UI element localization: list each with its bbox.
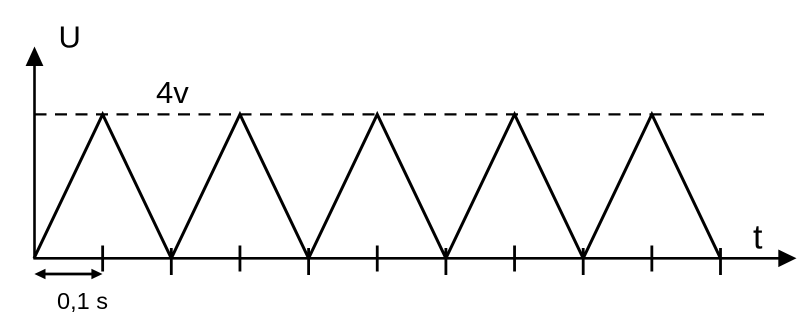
svg-text:4v: 4v <box>156 75 189 110</box>
tick mark 5 <box>376 246 379 272</box>
tick mark 3 <box>239 246 242 272</box>
t axis (horizontal time axis) <box>34 257 780 260</box>
svg-text:t: t <box>753 219 763 257</box>
tick mark 2 <box>170 248 173 275</box>
U axis arrowhead <box>26 47 44 67</box>
U axis (vertical voltage axis) <box>33 60 36 260</box>
tick mark 1 (0.1 s) <box>101 246 104 272</box>
tick mark 7 <box>513 246 516 272</box>
svg-text:0,1 s: 0,1 s <box>57 288 108 314</box>
tick mark 9 <box>650 246 653 272</box>
svg-text:U: U <box>59 20 81 55</box>
tick mark 8 <box>582 248 585 275</box>
4v dashed level line <box>35 113 765 115</box>
0,1 s interval double arrow <box>34 269 102 279</box>
tick mark 10 <box>719 248 722 275</box>
t axis arrowhead <box>778 250 796 268</box>
tick mark 4 <box>307 248 310 275</box>
triangular waveform (5 periods) <box>34 114 721 258</box>
tick mark 6 <box>444 248 447 275</box>
